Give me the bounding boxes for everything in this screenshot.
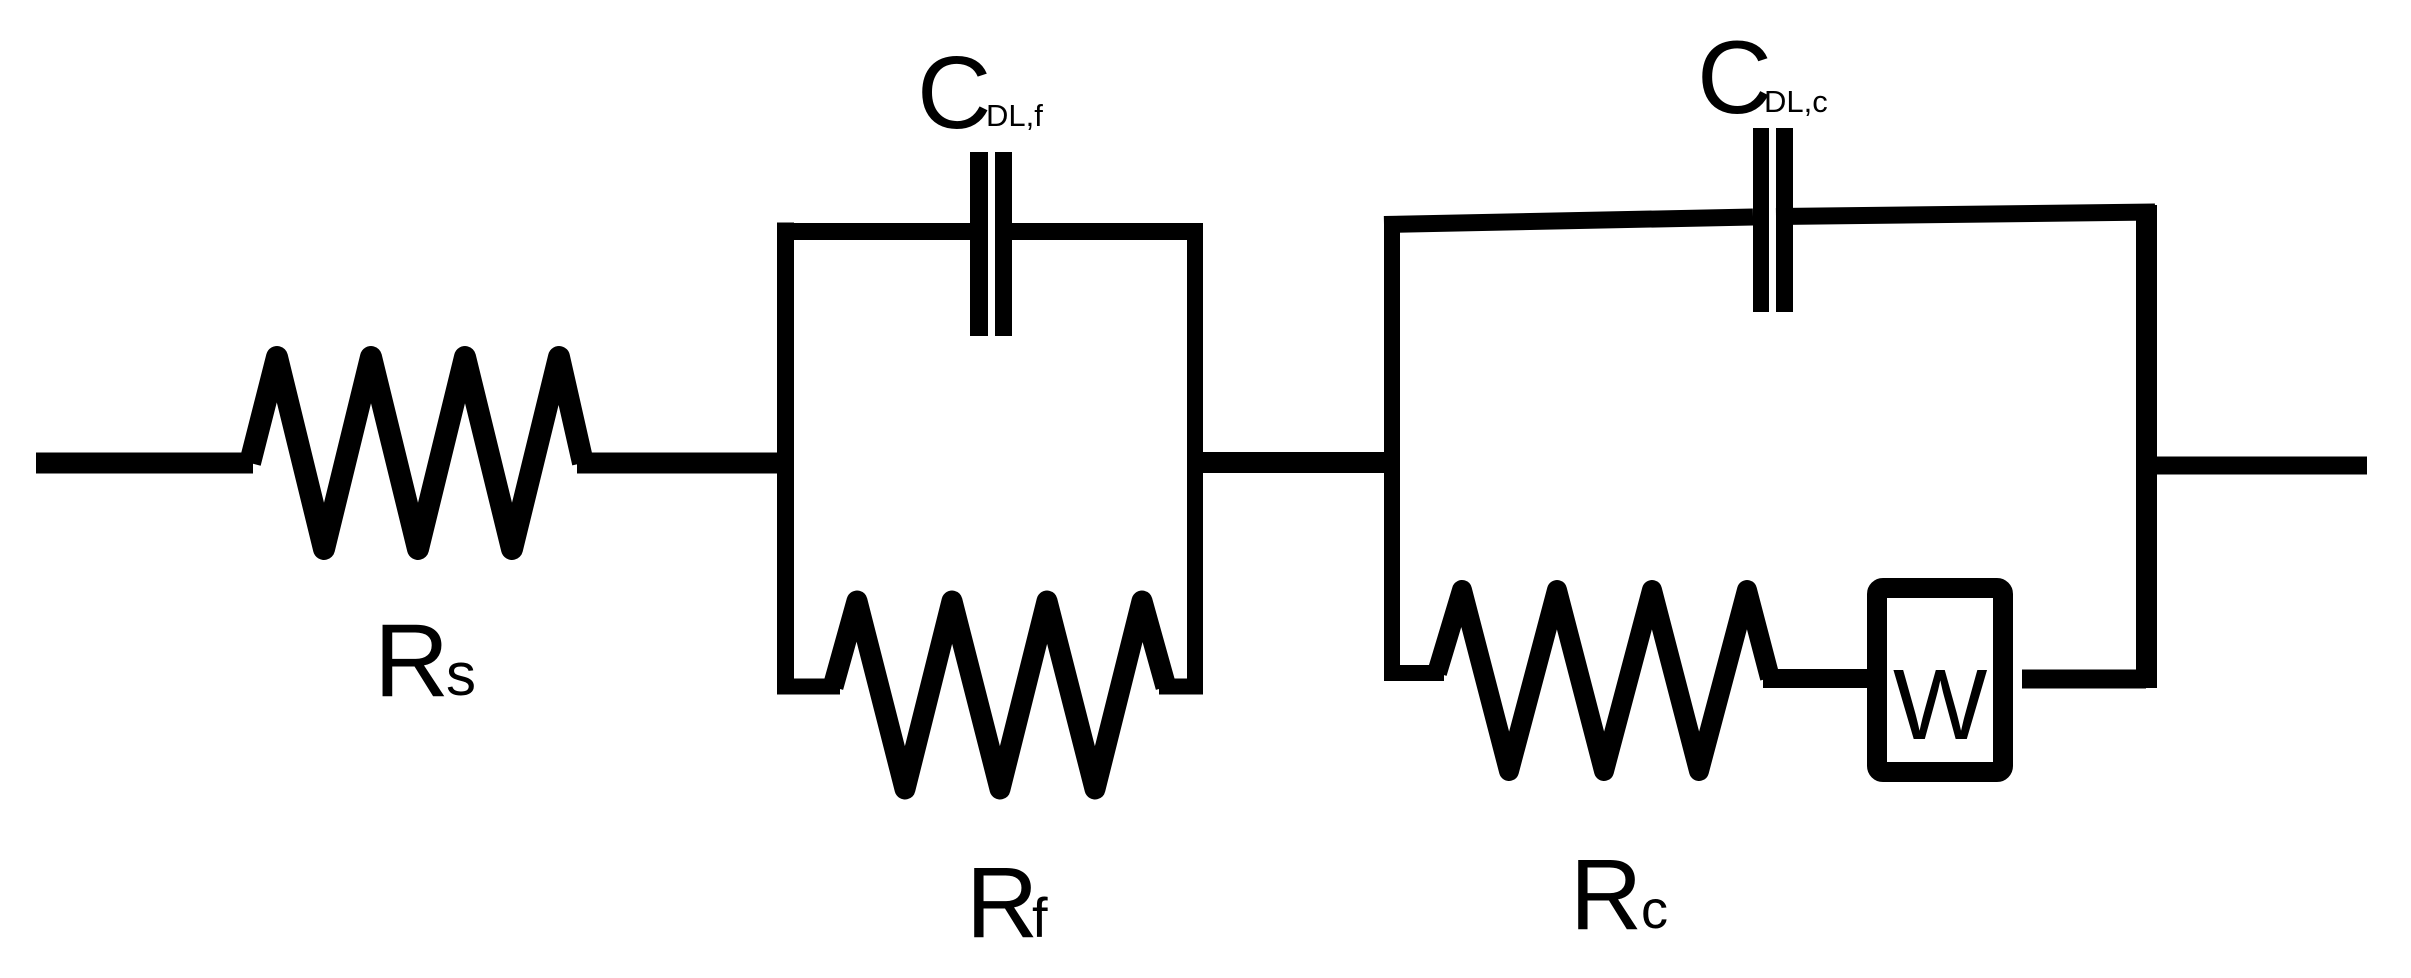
wire: box2 left vertical (1384, 217, 1400, 682)
svg-text:R: R (1570, 839, 1642, 951)
wire: box1 right vertical (1187, 223, 1203, 694)
svg-text:R: R (966, 847, 1038, 959)
svg-text:DL,f: DL,f (986, 98, 1043, 133)
resistor R2 (Rf) zigzag (833, 601, 1166, 789)
resistor R1 (Rs) zigzag (250, 357, 583, 549)
svg-text:s: s (446, 641, 476, 708)
wire: Rs to first parallel block (577, 453, 786, 474)
wire: box2 top-left segment (slightly slanted) (1384, 217, 1753, 225)
svg-text:C: C (1697, 20, 1772, 136)
svg-text:c: c (1641, 880, 1668, 940)
wire: box1 top-right segment (1012, 223, 1203, 240)
wire: box2 top-right segment (slightly slanted) (1776, 212, 2155, 217)
capacitor C1 (C_DL,f) left plate (970, 152, 988, 336)
svg-text:C: C (917, 35, 991, 150)
wire: box2 bottom-left stub (1384, 665, 1444, 681)
svg-text:DL,c: DL,c (1764, 84, 1828, 119)
wire: Rc to Warburg element (1763, 669, 1867, 688)
capacitor C1 (C_DL,f) right plate (995, 152, 1012, 336)
svg-text:R: R (374, 603, 449, 719)
wire: box1 left vertical (777, 223, 794, 695)
wire: Warburg to box2 right vertical (2022, 670, 2146, 689)
wire: right output lead (2146, 457, 2367, 475)
wire: box1 bottom-right stub (1159, 679, 1203, 695)
Warburg element W box (1877, 588, 2003, 772)
wire: box1 top-left segment (777, 223, 970, 240)
wire: left input lead (36, 453, 253, 474)
resistor R3 (Rc) zigzag (1437, 590, 1770, 771)
wire: between block 1 and block 2 (1195, 452, 1393, 473)
capacitor C2 (C_DL,c) right plate (1776, 128, 1793, 312)
svg-text:W: W (1893, 649, 1988, 761)
svg-text:f: f (1032, 886, 1048, 949)
wire: box1 bottom-left stub (777, 679, 840, 695)
wire: box2 right vertical (2136, 205, 2157, 688)
capacitor C2 (C_DL,c) left plate (1753, 128, 1769, 312)
